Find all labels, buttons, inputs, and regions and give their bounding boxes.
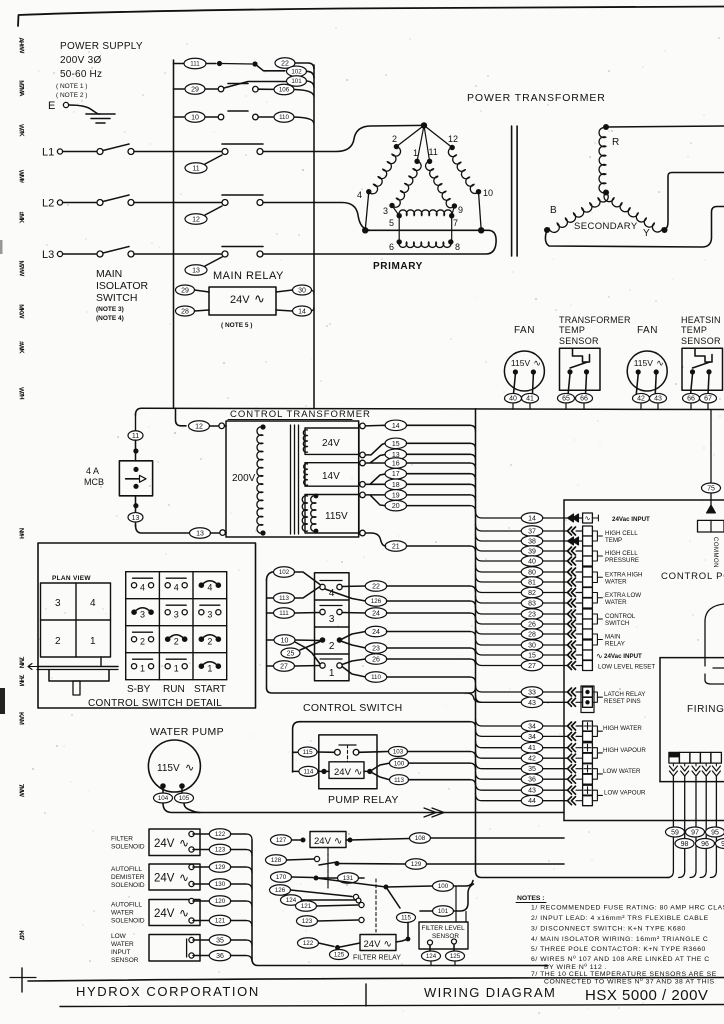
svg-text:125: 125 <box>334 952 345 959</box>
svg-text:115: 115 <box>303 749 313 756</box>
svg-text:3: 3 <box>207 610 212 620</box>
svg-text:MAIN: MAIN <box>605 634 620 641</box>
svg-text:10: 10 <box>191 115 199 122</box>
svg-text:59: 59 <box>671 830 679 837</box>
svg-text:1: 1 <box>207 664 212 674</box>
svg-text:W7H: W7H <box>17 387 24 400</box>
svg-text:18: 18 <box>392 482 400 489</box>
svg-text:3: 3 <box>140 610 145 620</box>
svg-text:L1: L1 <box>42 147 54 159</box>
svg-text:27: 27 <box>280 664 288 671</box>
svg-text:120: 120 <box>215 898 226 905</box>
svg-text:35: 35 <box>216 938 224 945</box>
svg-text:114: 114 <box>303 769 313 776</box>
svg-text:#MK: #MK <box>17 211 24 223</box>
svg-text:24V: 24V <box>322 438 340 449</box>
svg-text:LOW: LOW <box>111 933 127 940</box>
svg-text:33: 33 <box>528 690 536 697</box>
svg-text:CONTROL TRANSFORMER: CONTROL TRANSFORMER <box>230 409 371 420</box>
svg-text:∿: ∿ <box>585 516 591 523</box>
svg-text:170: 170 <box>276 874 287 881</box>
svg-text:M7#W: M7#W <box>17 260 25 277</box>
svg-text:123: 123 <box>215 847 226 854</box>
svg-text:121: 121 <box>215 918 226 925</box>
svg-text:41: 41 <box>528 745 536 752</box>
svg-text:25: 25 <box>287 651 295 658</box>
svg-text:WATER: WATER <box>605 599 627 606</box>
svg-text:103: 103 <box>393 749 404 756</box>
svg-text:39: 39 <box>528 549 536 556</box>
svg-text:67: 67 <box>704 396 712 403</box>
svg-text:1: 1 <box>413 148 418 158</box>
svg-text:7MW: 7MW <box>17 784 24 798</box>
svg-text:HIGH VAPOUR: HIGH VAPOUR <box>603 747 646 754</box>
svg-text:28: 28 <box>181 309 189 316</box>
svg-text:14: 14 <box>528 516 536 523</box>
svg-text:24V: 24V <box>154 838 175 850</box>
svg-text:115V: 115V <box>325 511 348 522</box>
svg-text:24Vac INPUT: 24Vac INPUT <box>612 516 650 523</box>
svg-text:L3: L3 <box>42 249 54 261</box>
svg-text:2: 2 <box>174 637 179 647</box>
svg-text:KAM: KAM <box>17 712 24 725</box>
svg-text:AUTOFILL: AUTOFILL <box>111 902 142 909</box>
svg-text:( NOTE 5 ): ( NOTE 5 ) <box>221 322 252 329</box>
svg-text:95: 95 <box>711 830 719 837</box>
svg-text:WIRING DIAGRAM: WIRING DIAGRAM <box>424 985 556 1000</box>
svg-text:(NOTE 4): (NOTE 4) <box>96 315 124 322</box>
svg-text:66: 66 <box>687 396 695 403</box>
svg-text:29: 29 <box>181 288 189 295</box>
svg-text:34: 34 <box>528 734 536 741</box>
svg-text:65: 65 <box>562 396 570 403</box>
svg-text:75: 75 <box>707 486 715 493</box>
svg-text:4: 4 <box>357 190 362 200</box>
svg-text:7MN: 7MN <box>17 656 24 668</box>
svg-text:DEMISTER: DEMISTER <box>111 874 145 881</box>
svg-text:29: 29 <box>191 87 199 94</box>
svg-text:83: 83 <box>528 601 536 608</box>
svg-text:66: 66 <box>580 396 588 403</box>
svg-text:POWER SUPPLY: POWER SUPPLY <box>60 41 143 52</box>
svg-text:( NOTE 2 ): ( NOTE 2 ) <box>56 92 87 99</box>
svg-text:36: 36 <box>528 777 536 784</box>
svg-text:HEATSIN: HEATSIN <box>681 315 721 325</box>
svg-text:5/ THREE POLE CONTACTOR: K+N: 5/ THREE POLE CONTACTOR: K+N TYPE R3660 <box>531 946 706 953</box>
svg-text:FILTER RELAY: FILTER RELAY <box>353 955 401 962</box>
svg-text:K47: K47 <box>17 930 24 941</box>
svg-text:21: 21 <box>392 544 400 551</box>
svg-text:100: 100 <box>438 883 449 890</box>
svg-text:SWITCH: SWITCH <box>96 292 137 304</box>
svg-text:110: 110 <box>279 114 289 121</box>
svg-text:24V: 24V <box>314 836 332 847</box>
svg-text:113: 113 <box>279 595 289 602</box>
svg-text:35: 35 <box>528 766 536 773</box>
svg-text:2: 2 <box>207 637 212 647</box>
svg-text:TEMP: TEMP <box>605 537 622 544</box>
svg-text:23: 23 <box>372 646 380 653</box>
svg-text:4: 4 <box>207 583 212 593</box>
svg-text:5: 5 <box>389 218 394 228</box>
svg-text:2/ INPUT LEAD: 4 x16mm² TRS F: 2/ INPUT LEAD: 4 x16mm² TRS FLEXIBLE CAB… <box>531 915 709 922</box>
svg-text:WATER: WATER <box>111 910 134 917</box>
svg-text:1/ RECOMMENDED FUSE RATING: 8: 1/ RECOMMENDED FUSE RATING: 80 AMP HRC C… <box>531 905 724 912</box>
svg-text:101: 101 <box>291 78 302 85</box>
svg-text:TRANSFORMER: TRANSFORMER <box>559 315 631 325</box>
svg-text:24V: 24V <box>154 908 175 920</box>
svg-text:11: 11 <box>192 166 199 173</box>
svg-text:12: 12 <box>195 424 203 431</box>
svg-text:TEMP: TEMP <box>559 325 585 335</box>
svg-text:10: 10 <box>281 638 289 645</box>
svg-text:124: 124 <box>286 897 297 904</box>
svg-text:15: 15 <box>392 441 400 448</box>
svg-text:97: 97 <box>691 830 699 837</box>
svg-text:127: 127 <box>276 837 287 844</box>
svg-text:SWITCH: SWITCH <box>605 620 629 627</box>
svg-text:27: 27 <box>528 663 536 670</box>
svg-text:2: 2 <box>55 636 61 647</box>
svg-text:CONTROL SWITCH: CONTROL SWITCH <box>303 702 402 714</box>
svg-text:RUN: RUN <box>163 684 185 695</box>
svg-text:Y: Y <box>643 228 650 239</box>
svg-text:24: 24 <box>372 629 380 636</box>
svg-text:EXTRA LOW: EXTRA LOW <box>605 592 641 599</box>
svg-text:1: 1 <box>140 664 145 674</box>
svg-text:20: 20 <box>392 503 400 510</box>
svg-text:CONTROL SWITCH DETAIL: CONTROL SWITCH DETAIL <box>88 698 222 709</box>
svg-text:WATER: WATER <box>605 578 627 585</box>
svg-text:LOW LEVEL RESET: LOW LEVEL RESET <box>598 664 655 671</box>
svg-text:81: 81 <box>528 580 536 587</box>
svg-text:42: 42 <box>528 756 536 763</box>
svg-text:30: 30 <box>528 643 536 650</box>
svg-text:WATER: WATER <box>111 941 134 948</box>
svg-text:123: 123 <box>302 918 313 925</box>
svg-text:106: 106 <box>279 87 290 94</box>
svg-text:CONNECTED TO WIRES Nº 37 AND 3: CONNECTED TO WIRES Nº 37 AND 38 AT THIS <box>544 979 715 986</box>
svg-text:LOW WATER: LOW WATER <box>603 768 641 775</box>
svg-text:SOLENOID: SOLENOID <box>111 918 145 925</box>
svg-text:SENSOR: SENSOR <box>111 957 139 964</box>
svg-text:37: 37 <box>528 529 536 536</box>
svg-text:43: 43 <box>528 788 536 795</box>
svg-text:FAN: FAN <box>637 325 658 336</box>
svg-text:HIGH CELL: HIGH CELL <box>605 550 638 557</box>
svg-text:43: 43 <box>654 396 662 403</box>
svg-text:104: 104 <box>158 795 169 802</box>
svg-text:121: 121 <box>301 903 312 910</box>
svg-text:COMMON: COMMON <box>712 537 718 568</box>
svg-text:#WK: #WK <box>17 341 24 354</box>
svg-text:115V: 115V <box>157 763 180 774</box>
svg-text:AUTOFILL: AUTOFILL <box>111 866 142 873</box>
svg-text:MAIN RELAY: MAIN RELAY <box>213 270 284 282</box>
svg-text:98: 98 <box>681 841 689 848</box>
svg-text:24Vac INPUT: 24Vac INPUT <box>604 653 642 660</box>
svg-text:1: 1 <box>329 668 335 679</box>
svg-text:HYDROX CORPORATION: HYDROX CORPORATION <box>76 984 260 999</box>
svg-text:7: 7 <box>453 218 458 228</box>
svg-text:17: 17 <box>392 471 400 478</box>
svg-text:∿: ∿ <box>179 871 189 885</box>
svg-text:SOLENOID: SOLENOID <box>111 843 145 850</box>
svg-text:M7MA: M7MA <box>17 80 25 97</box>
svg-text:22: 22 <box>281 61 289 68</box>
svg-text:N#H: N#H <box>17 528 24 540</box>
svg-text:105: 105 <box>179 795 190 802</box>
svg-text:13: 13 <box>196 531 204 538</box>
svg-text:111: 111 <box>279 610 289 617</box>
svg-text:(NOTE 3): (NOTE 3) <box>96 306 124 313</box>
svg-text:128: 128 <box>271 857 282 864</box>
svg-text:∿: ∿ <box>179 906 189 920</box>
svg-text:126: 126 <box>275 887 286 894</box>
svg-text:6: 6 <box>389 242 394 252</box>
svg-text:CONTROL PO: CONTROL PO <box>661 571 724 582</box>
svg-text:122: 122 <box>215 831 226 838</box>
svg-text:115: 115 <box>401 915 411 922</box>
svg-text:102: 102 <box>291 69 302 76</box>
svg-text:START: START <box>194 684 226 695</box>
svg-text:MCB: MCB <box>84 477 104 487</box>
svg-text:28: 28 <box>528 632 536 639</box>
svg-text:3: 3 <box>55 598 61 609</box>
svg-text:RESET PINS: RESET PINS <box>604 698 641 705</box>
svg-text:FAN: FAN <box>514 325 535 336</box>
svg-text:HIGH WATER: HIGH WATER <box>603 725 642 732</box>
svg-text:13: 13 <box>192 268 200 275</box>
svg-text:115V: 115V <box>511 358 531 368</box>
svg-text:W7K: W7K <box>17 124 24 137</box>
svg-text:40: 40 <box>528 559 536 566</box>
svg-text:19: 19 <box>392 492 400 499</box>
svg-text:SOLENOID: SOLENOID <box>111 882 145 889</box>
svg-text:PRESSURE: PRESSURE <box>605 557 639 564</box>
svg-text:101: 101 <box>438 908 449 915</box>
svg-text:ISOLATOR: ISOLATOR <box>96 280 149 292</box>
svg-text:26: 26 <box>528 622 536 629</box>
svg-text:115V: 115V <box>634 358 654 368</box>
svg-text:3/ DISCONNECT SWITCH: K+N TYP: 3/ DISCONNECT SWITCH: K+N TYPE K680 <box>531 926 686 933</box>
svg-text:24V: 24V <box>334 767 352 778</box>
svg-text:12: 12 <box>192 217 200 224</box>
svg-text:INPUT: INPUT <box>111 949 131 956</box>
svg-text:102: 102 <box>279 569 290 576</box>
svg-text:CONTROL: CONTROL <box>605 613 636 620</box>
svg-text:SECONDARY: SECONDARY <box>574 221 638 232</box>
svg-text:S-BY: S-BY <box>127 684 151 695</box>
svg-text:30: 30 <box>298 288 306 295</box>
svg-text:125: 125 <box>450 953 461 960</box>
svg-text:FILTER LEVEL: FILTER LEVEL <box>422 925 466 932</box>
svg-text:HIGH CELL: HIGH CELL <box>605 530 638 537</box>
svg-text:14V: 14V <box>322 471 340 482</box>
svg-text:∿: ∿ <box>354 767 362 778</box>
svg-text:24V: 24V <box>364 939 382 950</box>
svg-text:10: 10 <box>483 188 493 198</box>
svg-text:14: 14 <box>298 309 306 316</box>
svg-text:AH#W: AH#W <box>17 37 25 54</box>
svg-text:NOTES :: NOTES : <box>517 895 545 902</box>
svg-text:44: 44 <box>528 798 536 805</box>
svg-text:RELAY: RELAY <box>605 641 625 648</box>
svg-text:∿: ∿ <box>533 358 541 368</box>
svg-text:24V: 24V <box>154 873 175 885</box>
svg-text:42: 42 <box>637 396 645 403</box>
svg-text:14: 14 <box>392 423 400 430</box>
svg-text:50-60 Hz: 50-60 Hz <box>60 69 102 80</box>
svg-text:26: 26 <box>372 657 380 664</box>
svg-text:16: 16 <box>392 461 400 468</box>
svg-text:R: R <box>612 137 619 148</box>
svg-text:1: 1 <box>90 636 96 647</box>
svg-text:2: 2 <box>140 637 145 647</box>
svg-text:6/ WIRES Nº 107 AND 108 ARE LI: 6/ WIRES Nº 107 AND 108 ARE LINKED AT TH… <box>531 956 710 963</box>
svg-text:200V 3Ø: 200V 3Ø <box>60 55 102 66</box>
svg-text:POWER TRANSFORMER: POWER TRANSFORMER <box>467 92 606 104</box>
svg-text:4 A: 4 A <box>86 466 99 476</box>
svg-text:22: 22 <box>372 584 380 591</box>
svg-text:108: 108 <box>415 835 426 842</box>
svg-text:L2: L2 <box>42 198 54 210</box>
svg-text:24: 24 <box>372 611 380 618</box>
svg-text:3: 3 <box>174 610 179 620</box>
svg-text:4/ MAIN ISOLATOR WIRING: 16: 4/ MAIN ISOLATOR WIRING: 16mm² TRIANGLE … <box>531 936 708 943</box>
svg-text:4: 4 <box>90 598 96 609</box>
svg-text:∿: ∿ <box>596 652 603 661</box>
svg-text:SENSOR: SENSOR <box>681 336 721 346</box>
svg-text:24V: 24V <box>230 294 250 306</box>
svg-text:E: E <box>48 100 55 112</box>
svg-text:WM#: WM# <box>17 170 24 184</box>
svg-text:LOW VAPOUR: LOW VAPOUR <box>604 789 646 796</box>
svg-text:8: 8 <box>455 242 460 252</box>
svg-text:36: 36 <box>216 953 224 960</box>
svg-text:∿: ∿ <box>185 762 194 774</box>
svg-text:2: 2 <box>329 641 335 652</box>
svg-text:LATCH RELAY: LATCH RELAY <box>604 691 645 698</box>
svg-text:4: 4 <box>329 588 335 599</box>
svg-text:∿: ∿ <box>254 291 265 306</box>
svg-text:12: 12 <box>448 134 458 144</box>
svg-text:130: 130 <box>215 881 226 888</box>
svg-text:82: 82 <box>528 590 536 597</box>
svg-text:11: 11 <box>132 433 139 440</box>
svg-text:126: 126 <box>371 598 382 605</box>
svg-text:( NOTE 1 ): ( NOTE 1 ) <box>56 83 87 90</box>
svg-text:110: 110 <box>371 674 381 681</box>
svg-text:129: 129 <box>411 861 422 868</box>
svg-text:129: 129 <box>215 864 226 871</box>
svg-text:80: 80 <box>528 570 536 577</box>
svg-text:15: 15 <box>528 653 536 660</box>
svg-text:11: 11 <box>429 147 438 157</box>
svg-text:2: 2 <box>392 134 397 144</box>
svg-text:BY WIRE Nº 112 .: BY WIRE Nº 112 . <box>544 964 607 971</box>
svg-text:TEMP: TEMP <box>681 325 707 335</box>
svg-text:B: B <box>550 205 557 216</box>
svg-text:43: 43 <box>528 700 536 707</box>
svg-text:23: 23 <box>528 612 536 619</box>
svg-text:PLAN VIEW: PLAN VIEW <box>52 575 91 582</box>
svg-text:100: 100 <box>394 760 405 767</box>
svg-text:96: 96 <box>701 841 709 848</box>
svg-text:MAIN: MAIN <box>96 268 122 280</box>
svg-text:PUMP RELAY: PUMP RELAY <box>328 794 399 806</box>
svg-text:∿: ∿ <box>179 836 189 850</box>
svg-text:FIRING C: FIRING C <box>687 704 724 715</box>
svg-text:4: 4 <box>140 583 145 593</box>
svg-text:41: 41 <box>526 396 534 403</box>
svg-text:∿: ∿ <box>334 836 342 847</box>
svg-text:MKW: MKW <box>17 304 25 319</box>
svg-text:1: 1 <box>174 664 179 674</box>
svg-text:3: 3 <box>329 614 335 625</box>
svg-text:PRIMARY: PRIMARY <box>373 261 423 272</box>
svg-text:FILTER: FILTER <box>111 835 133 842</box>
svg-text:4: 4 <box>174 583 179 593</box>
svg-text:EXTRA HIGH: EXTRA HIGH <box>605 571 642 578</box>
svg-text:124: 124 <box>426 953 437 960</box>
svg-text:113: 113 <box>394 777 404 784</box>
svg-text:∿: ∿ <box>384 939 392 950</box>
svg-text:200V: 200V <box>232 473 256 484</box>
svg-text:40: 40 <box>509 396 517 403</box>
svg-text:SENSOR: SENSOR <box>559 336 599 346</box>
svg-text:38: 38 <box>528 539 536 546</box>
svg-text:34: 34 <box>528 724 536 731</box>
svg-text:∿: ∿ <box>656 358 664 368</box>
svg-text:111: 111 <box>190 61 200 68</box>
svg-text:3: 3 <box>383 206 388 216</box>
svg-text:13: 13 <box>132 515 140 522</box>
svg-text:9: 9 <box>458 205 463 215</box>
svg-text:122: 122 <box>303 940 314 947</box>
svg-text:7HM: 7HM <box>17 674 24 686</box>
svg-text:WATER PUMP: WATER PUMP <box>150 726 224 738</box>
svg-text:HSX 5000 / 200V: HSX 5000 / 200V <box>585 987 708 1004</box>
